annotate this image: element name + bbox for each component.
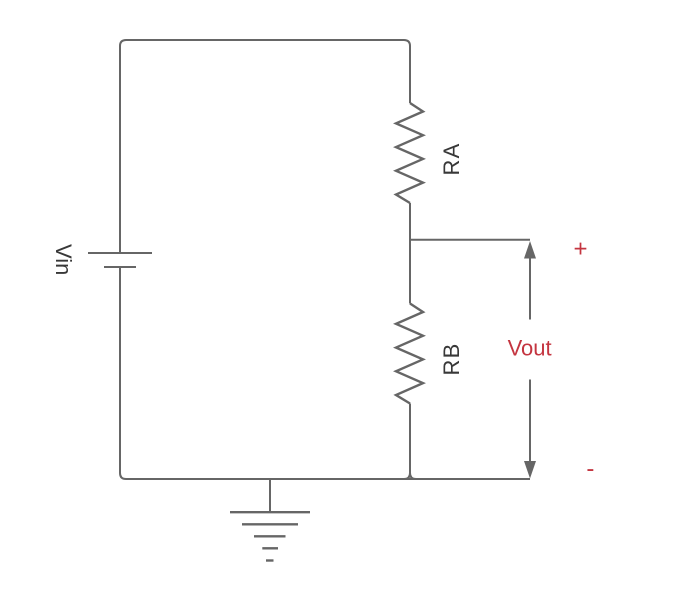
battery V1 (Vin)	[88, 253, 152, 267]
node wire: divider node to Vout+	[410, 239, 530, 241]
svg-text:Vin: Vin	[51, 244, 76, 275]
label Vin	[51, 244, 76, 275]
resistor RA	[396, 103, 423, 203]
svg-text:+: +	[573, 235, 587, 262]
svg-text:RB: RB	[439, 343, 464, 376]
label Vout	[508, 335, 552, 360]
wire: battery bottom down and bottom rail	[120, 267, 530, 479]
svg-text:-: -	[586, 455, 594, 482]
wire: battery top to RA top (left, top, right-upper run)	[120, 40, 410, 253]
resistor RB	[396, 304, 423, 404]
wire: RB bottom to bottom rail (with fillets)	[404, 404, 416, 480]
label RA	[439, 143, 464, 176]
svg-text:RA: RA	[439, 143, 464, 176]
label -	[586, 455, 594, 482]
label +	[573, 235, 587, 262]
label RB	[439, 343, 464, 376]
ground	[230, 479, 310, 561]
annotation arrow: Vout measurement	[524, 241, 536, 479]
wire: RA bottom to RB top (through node)	[409, 203, 411, 304]
svg-text:Vout: Vout	[508, 335, 552, 360]
